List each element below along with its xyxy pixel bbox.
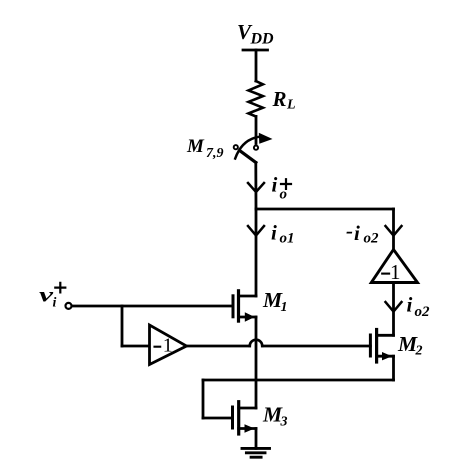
switch M7,9 motion arc arrow: [235, 133, 272, 159]
svg-text:-: -: [346, 219, 353, 243]
svg-text:3: 3: [280, 415, 288, 430]
svg-text:2: 2: [415, 344, 423, 359]
label vi+: [39, 283, 65, 311]
node VDD label: [237, 20, 274, 48]
VDD rail bar: [243, 49, 268, 52]
transistor M2: [370, 330, 393, 363]
wire branch down to buffer: [121, 306, 124, 346]
ground: [242, 448, 270, 457]
op-amp inverter -1 (right): [371, 250, 417, 285]
wire vi to M1 gate: [72, 305, 233, 308]
svg-text:L: L: [286, 98, 296, 113]
switch M7,9 left contact: [234, 145, 238, 149]
label M1: [262, 288, 288, 315]
wire branch to right rail: [256, 208, 394, 211]
wire M3 source to ground: [255, 429, 258, 449]
label io1: [271, 221, 295, 247]
wire branch to buffer input: [122, 345, 150, 348]
wire VDD to resistor: [255, 50, 258, 81]
label -io2: [346, 219, 379, 247]
wire left rail down to M1 drain: [255, 209, 258, 296]
wire right rail down to inverter: [392, 209, 395, 250]
svg-text:DD: DD: [250, 31, 275, 48]
transistor M3: [233, 402, 257, 434]
terminal vi+: [66, 303, 72, 309]
svg-text:1: 1: [281, 300, 288, 315]
transistor M1: [233, 291, 256, 322]
wire feedback left leg: [202, 380, 205, 418]
svg-text:i: i: [272, 173, 278, 197]
switch M7,9 right contact: [254, 146, 258, 150]
current arrow -io2: [386, 226, 402, 236]
svg-text:i: i: [53, 296, 57, 311]
current arrow io1: [248, 226, 264, 236]
resistor RL: [249, 81, 263, 116]
current arrow io+: [248, 183, 264, 192]
wire feedback bottom: [203, 379, 394, 382]
label io2: [407, 293, 431, 321]
svg-text:i: i: [354, 221, 360, 245]
svg-text:R: R: [272, 87, 287, 111]
wire resistor to switch: [255, 116, 258, 143]
wire M1 source down to M3 drain: [255, 317, 258, 408]
wire hop over M1 source wire: [250, 340, 263, 346]
svg-text:o1: o1: [280, 231, 295, 247]
wire buffer output to hop: [187, 345, 250, 348]
resistor RL value label: [272, 87, 296, 113]
wire hop to M2 gate: [262, 345, 370, 348]
svg-text:M: M: [186, 136, 205, 157]
svg-text:o2: o2: [415, 304, 431, 320]
switch M7,9 label: [186, 136, 224, 161]
label M3: [262, 403, 288, 430]
svg-text:7,9: 7,9: [206, 146, 224, 161]
op-amp buffer -1 (left): [150, 325, 187, 365]
wire switch to branch node: [254, 163, 257, 210]
svg-text:1: 1: [163, 335, 173, 357]
label io+: [272, 173, 292, 203]
svg-text:i: i: [407, 293, 413, 317]
wire inverter to M2 drain: [392, 283, 395, 336]
switch M7,9 blade: [240, 151, 256, 163]
svg-text:1: 1: [390, 260, 401, 284]
label M2: [397, 332, 423, 359]
svg-text:i: i: [271, 221, 277, 245]
svg-text:o2: o2: [364, 231, 380, 247]
current arrow io2: [386, 302, 402, 312]
wire M2 source down: [392, 356, 395, 380]
wire to M3 gate: [203, 417, 233, 420]
